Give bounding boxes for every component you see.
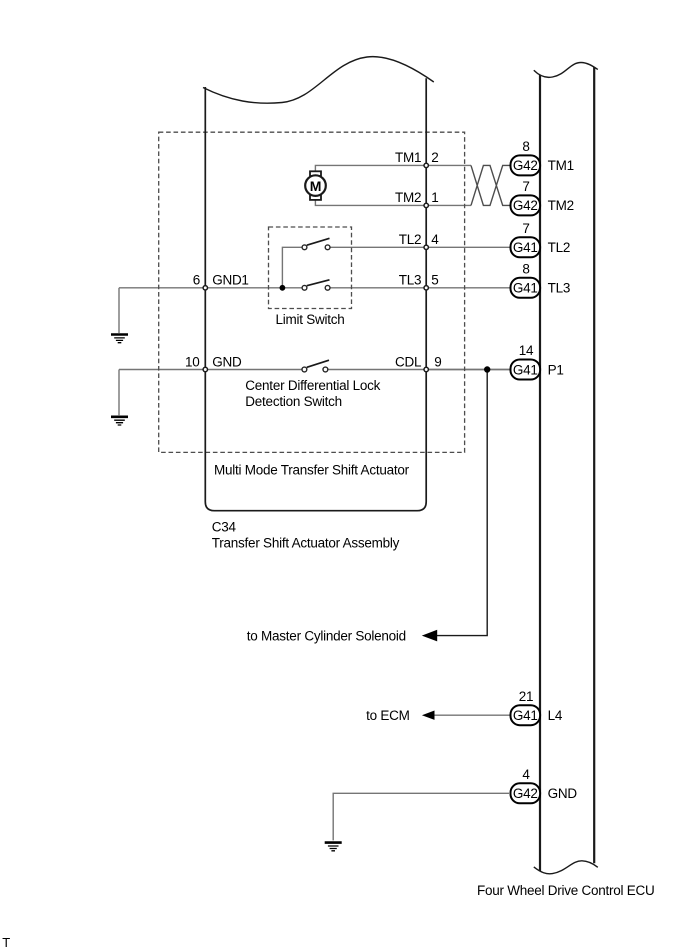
svg-text:7: 7 — [522, 179, 529, 194]
break (wavy) top of ECU bus — [534, 63, 598, 78]
label pin 5 — [431, 273, 438, 288]
pin 5 circle TL3 — [424, 286, 428, 290]
arrowhead to master cylinder solenoid — [422, 630, 437, 642]
svg-text:4: 4 — [431, 232, 439, 247]
svg-text:Center Differential Lock: Center Differential Lock — [245, 378, 380, 393]
svg-text:21: 21 — [519, 689, 534, 704]
svg-text:Detection Switch: Detection Switch — [245, 394, 342, 409]
svg-text:GND: GND — [548, 786, 578, 801]
label pin 10 — [185, 354, 200, 369]
svg-text:G42: G42 — [513, 786, 538, 801]
svg-text:TM1: TM1 — [395, 150, 421, 165]
limit switch lower contact circles — [302, 285, 330, 290]
svg-text:8: 8 — [522, 261, 529, 276]
svg-text:2: 2 — [431, 150, 438, 165]
label pin number 7 (TL2) — [522, 221, 529, 236]
svg-text:C34: C34 — [212, 520, 237, 535]
pin 4 circle TL2 — [424, 245, 428, 249]
limit switch upper contact circles — [302, 245, 330, 250]
center differential lock detection switch contacts — [302, 367, 328, 372]
wire CDL to P1 — [426, 369, 511, 371]
label Transfer Shift Actuator Assembly — [212, 536, 400, 551]
svg-text:M: M — [310, 178, 321, 194]
junction dot TL2 branch — [280, 285, 286, 291]
Four Wheel Drive Control ECU bus left line — [539, 75, 541, 872]
svg-text:1: 1 — [431, 190, 438, 205]
svg-text:5: 5 — [431, 273, 438, 288]
ground symbol GND1 — [111, 335, 128, 343]
svg-text:Transfer Shift Actuator Assemb: Transfer Shift Actuator Assembly — [212, 536, 400, 551]
connector G42 pin 4 (GND) — [511, 783, 541, 803]
label to ECM — [366, 708, 410, 723]
svg-text:G41: G41 — [513, 708, 538, 723]
wire L4 to ECM — [434, 714, 511, 716]
svg-text:G42: G42 — [513, 158, 538, 173]
label TL3 inside C34 — [399, 273, 422, 288]
label GND — [212, 354, 242, 369]
svg-text:6: 6 — [193, 272, 200, 287]
break (wavy) bottom of ECU bus — [534, 861, 598, 874]
label pin 6 — [193, 272, 200, 287]
twisted pair TM1/TM2 — [471, 165, 511, 205]
label pin number 8 (TL3) — [522, 261, 529, 276]
label Multi Mode Transfer Shift Actuator — [214, 463, 410, 478]
label Center Differential Lock Detection Switch — [245, 378, 380, 409]
svg-text:L4: L4 — [548, 708, 563, 723]
connector G41 pin 7 (TL2) — [511, 237, 541, 257]
net label P1 right of bus — [548, 362, 564, 377]
label TM1 inside C34 — [395, 150, 421, 165]
arrowhead to ECM — [422, 711, 435, 720]
ground symbol ECU GND — [325, 843, 342, 851]
connector G42 pin 8 (TM1) — [511, 155, 541, 175]
pin 1 circle TM2 — [424, 203, 428, 207]
svg-text:TL2: TL2 — [399, 232, 422, 247]
svg-text:to ECM: to ECM — [366, 708, 410, 723]
pin 6 circle GND1 — [203, 286, 207, 290]
pin 10 circle GND — [203, 367, 207, 371]
pin 2 circle TM1 — [424, 163, 428, 167]
label Limit Switch — [275, 312, 344, 327]
label pin 1 — [431, 190, 438, 205]
svg-text:14: 14 — [519, 343, 534, 358]
wire GND1 to ground drop — [118, 288, 120, 333]
svg-text:7: 7 — [522, 221, 529, 236]
label T bottom left — [2, 935, 10, 949]
label to Master Cylinder Solenoid — [247, 628, 406, 643]
svg-text:TL3: TL3 — [399, 273, 422, 288]
svg-text:G41: G41 — [513, 240, 538, 255]
wire P1 to master cylinder solenoid — [436, 370, 487, 636]
wire TL2 horizontal — [330, 246, 511, 248]
net label TL2 right of bus — [548, 240, 571, 255]
label GND1 — [212, 272, 249, 287]
label Four Wheel Drive Control ECU — [477, 883, 655, 898]
net label TL3 right of bus — [548, 281, 571, 296]
label pin number 7 (TM2) — [522, 179, 529, 194]
svg-text:TL2: TL2 — [548, 240, 571, 255]
svg-text:10: 10 — [185, 354, 200, 369]
connector G41 pin 21 (L4) — [511, 705, 541, 725]
label pin 4 — [431, 232, 439, 247]
label pin 9 — [434, 354, 441, 369]
svg-text:TM2: TM2 — [548, 198, 574, 213]
Four Wheel Drive Control ECU bus right line — [593, 67, 595, 863]
svg-text:Four Wheel Drive Control ECU: Four Wheel Drive Control ECU — [477, 883, 655, 898]
svg-text:T: T — [2, 935, 10, 949]
label TM2 inside C34 — [395, 190, 421, 205]
Limit Switch dashed box — [269, 227, 352, 309]
connector G41 pin 14 (P1) — [511, 360, 541, 380]
net label GND right of bus — [548, 786, 578, 801]
svg-text:TL3: TL3 — [548, 281, 571, 296]
svg-text:G41: G41 — [513, 362, 538, 377]
limit switch upper blade — [307, 238, 330, 245]
label pin number 21 (L4) — [519, 689, 534, 704]
label pin number 8 — [522, 139, 529, 154]
wire TM2 — [315, 200, 471, 206]
label pin number 14 (P1) — [519, 343, 534, 358]
svg-text:4: 4 — [522, 767, 530, 782]
svg-text:GND1: GND1 — [212, 272, 249, 287]
wire GND/CDL horizontal — [119, 369, 511, 371]
wire GND1/TL3 horizontal — [119, 287, 511, 289]
label C34 — [212, 520, 237, 535]
svg-text:9: 9 — [434, 354, 441, 369]
svg-text:Limit Switch: Limit Switch — [275, 312, 344, 327]
wire ECU GND — [333, 793, 509, 840]
net label L4 right of bus — [548, 708, 563, 723]
svg-text:to Master Cylinder Solenoid: to Master Cylinder Solenoid — [247, 628, 406, 643]
svg-text:GND: GND — [212, 354, 242, 369]
wire GND to ground drop — [118, 370, 120, 416]
connector G42 pin 7 (TM2) — [511, 195, 541, 215]
svg-text:CDL: CDL — [395, 354, 422, 369]
label TL2 inside C34 — [399, 232, 422, 247]
net label TM2 right of bus — [548, 198, 574, 213]
center differential lock detection switch blade — [307, 360, 329, 367]
label pin number 4 (GND) — [522, 767, 530, 782]
motor M1 — [305, 171, 326, 200]
Multi Mode Transfer Shift Actuator dashed box — [159, 132, 465, 452]
svg-text:G41: G41 — [513, 281, 538, 296]
label pin 2 — [431, 150, 438, 165]
connector G41 pin 8 (TL3) — [511, 278, 541, 298]
limit switch lower blade — [307, 280, 330, 286]
svg-text:P1: P1 — [548, 362, 564, 377]
net label TM1 right of bus — [548, 158, 574, 173]
svg-text:TM1: TM1 — [548, 158, 574, 173]
svg-text:Multi Mode Transfer Shift Actu: Multi Mode Transfer Shift Actuator — [214, 463, 410, 478]
wire TM1 — [315, 165, 471, 172]
label CDL inside C34 — [395, 354, 422, 369]
svg-text:TM2: TM2 — [395, 190, 421, 205]
wire TL2 branch vertical — [282, 247, 301, 287]
svg-text:G42: G42 — [513, 198, 538, 213]
svg-text:8: 8 — [522, 139, 529, 154]
C34 component outline — [205, 78, 426, 510]
pin 9 circle CDL — [424, 367, 428, 371]
junction dot P1 branch — [484, 366, 490, 372]
ground symbol GND — [111, 417, 128, 425]
break (wavy) top of C34 outline — [203, 57, 434, 104]
